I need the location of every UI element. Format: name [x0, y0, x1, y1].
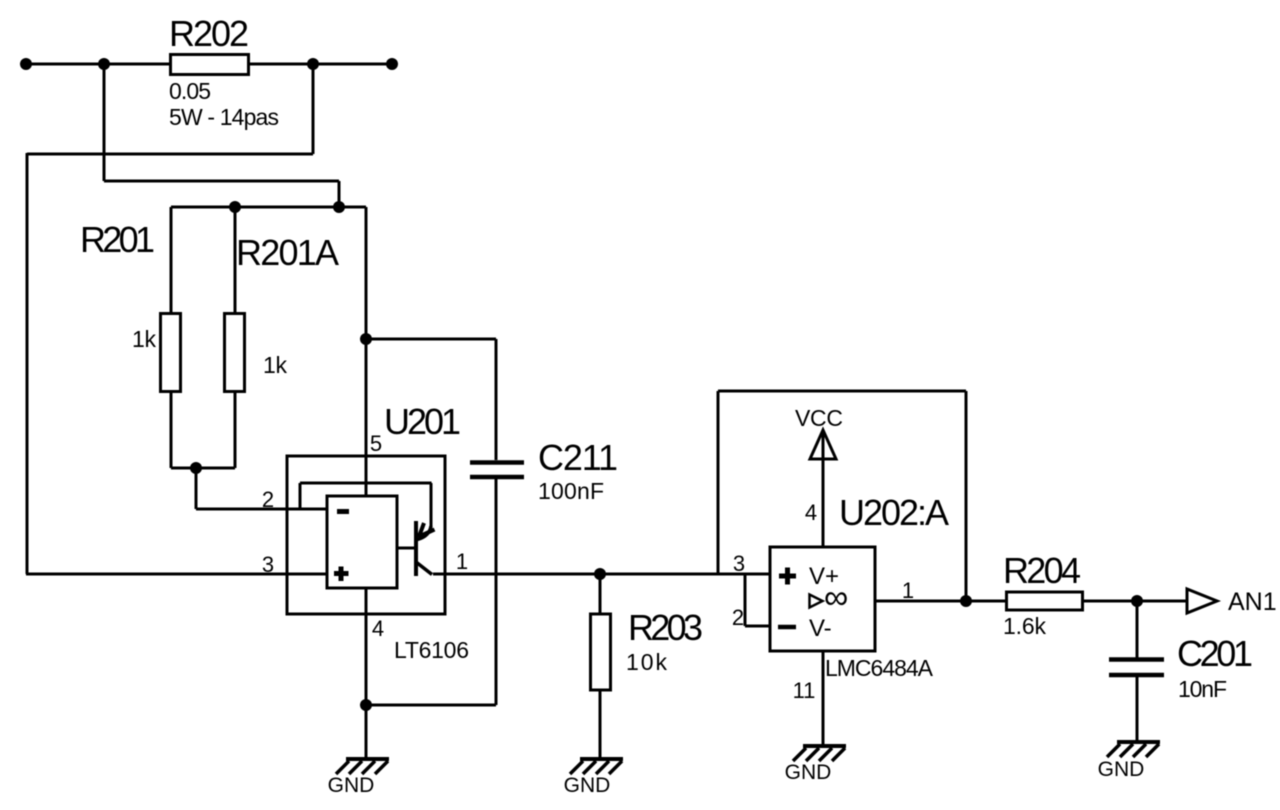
svg-text:3: 3 — [262, 552, 274, 577]
svg-text:10k: 10k — [626, 649, 668, 675]
svg-text:R204: R204 — [1003, 550, 1081, 591]
svg-text:1.6k: 1.6k — [1003, 613, 1047, 639]
svg-text:C211: C211 — [538, 437, 618, 478]
svg-text:2: 2 — [732, 605, 744, 630]
svg-text:V-: V- — [809, 615, 832, 642]
svg-text:GND: GND — [564, 774, 611, 797]
svg-text:R201: R201 — [80, 219, 155, 260]
svg-text:GND: GND — [1098, 758, 1145, 781]
svg-text:LMC6484A: LMC6484A — [825, 655, 934, 681]
svg-text:11: 11 — [793, 678, 816, 703]
svg-text:V+: V+ — [809, 563, 839, 590]
svg-text:U202:A: U202:A — [839, 492, 949, 533]
svg-text:4: 4 — [805, 500, 817, 525]
svg-text:GND: GND — [328, 774, 375, 797]
svg-text:4: 4 — [372, 616, 384, 641]
svg-text:1: 1 — [902, 578, 914, 603]
svg-text:5: 5 — [370, 431, 382, 456]
svg-text:1k: 1k — [263, 352, 288, 378]
svg-text:AN1: AN1 — [1228, 588, 1277, 616]
svg-text:100nF: 100nF — [538, 478, 604, 504]
svg-text:U201: U201 — [384, 401, 461, 442]
svg-text:VCC: VCC — [795, 405, 843, 431]
svg-text:2: 2 — [262, 487, 274, 512]
svg-text:R202: R202 — [169, 13, 249, 54]
svg-text:R203: R203 — [628, 607, 703, 648]
svg-text:GND: GND — [785, 761, 832, 784]
svg-text:3: 3 — [733, 551, 745, 576]
svg-text:R201A: R201A — [236, 232, 339, 273]
svg-text:C201: C201 — [1177, 633, 1253, 674]
svg-text:10nF: 10nF — [1178, 676, 1227, 702]
svg-text:1k: 1k — [132, 326, 157, 352]
svg-text:0.05: 0.05 — [169, 78, 211, 104]
svg-text:5W - 14pas: 5W - 14pas — [169, 104, 279, 130]
svg-text:LT6106: LT6106 — [394, 637, 469, 663]
svg-text:1: 1 — [456, 549, 468, 574]
